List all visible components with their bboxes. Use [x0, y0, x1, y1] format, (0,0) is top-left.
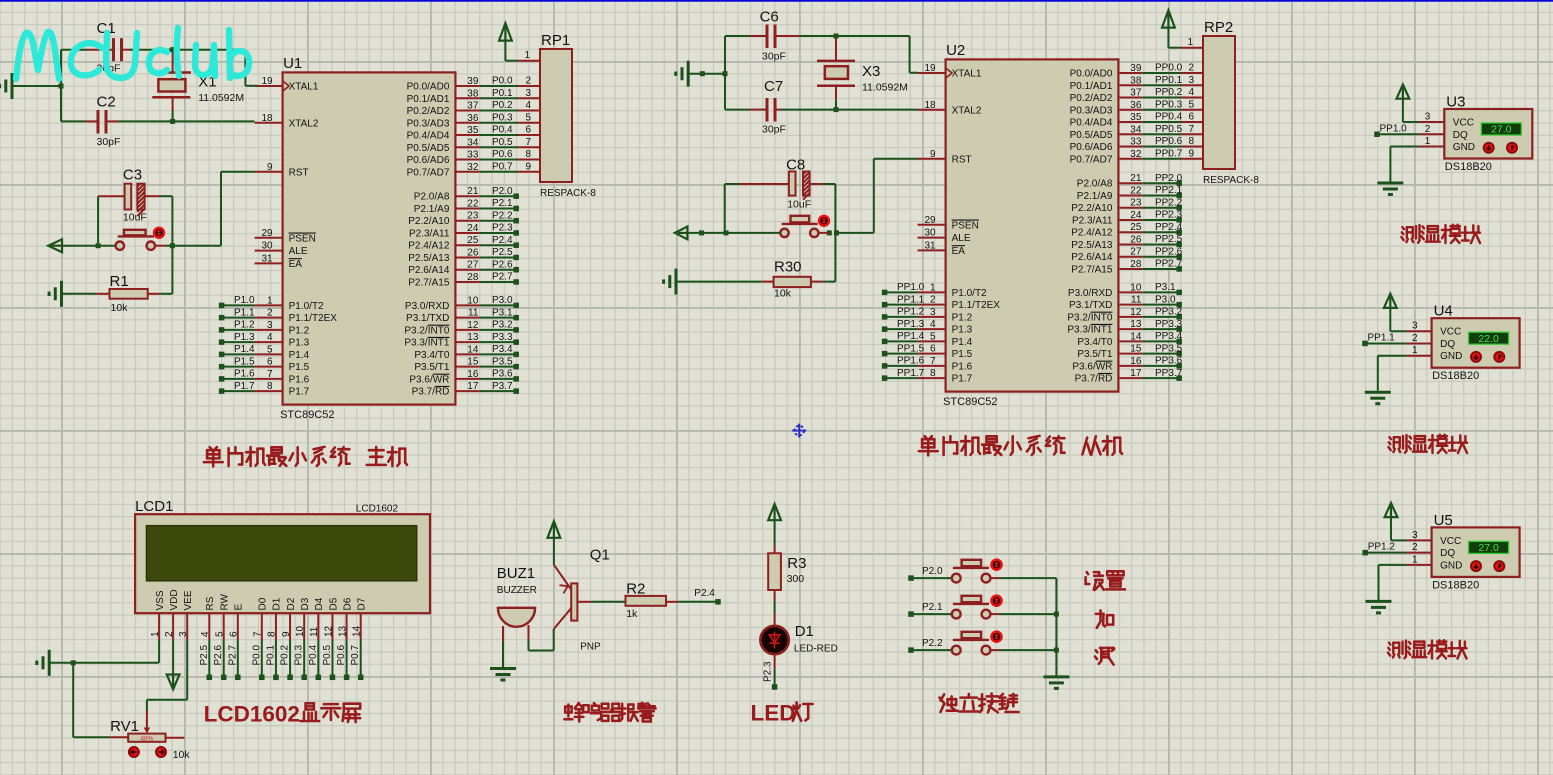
- ground: [37, 650, 159, 676]
- net label P1.3: [219, 332, 255, 345]
- button decrease: [129, 747, 139, 757]
- svg-text:XTAL2: XTAL2: [289, 118, 319, 129]
- svg-text:BUZ1: BUZ1: [497, 565, 535, 582]
- svg-text:3: 3: [1412, 530, 1418, 541]
- svg-text:P2.4: P2.4: [694, 588, 715, 599]
- svg-text:C6: C6: [760, 9, 779, 26]
- svg-text:1: 1: [1187, 37, 1193, 48]
- svg-text:PP1.7: PP1.7: [897, 368, 925, 379]
- net label P0.1: [265, 640, 278, 681]
- capacitor C7: [750, 78, 786, 136]
- svg-text:P3.0: P3.0: [1155, 294, 1176, 305]
- wire: [819, 159, 918, 233]
- svg-text:10k: 10k: [173, 749, 191, 761]
- svg-text:11.0592M: 11.0592M: [862, 82, 908, 94]
- svg-text:30pF: 30pF: [762, 51, 786, 63]
- wire: [160, 196, 175, 248]
- net label PP1.3: [882, 319, 925, 332]
- svg-text:7: 7: [253, 631, 264, 637]
- net label PP2.4: [1143, 222, 1183, 235]
- wire PP0.0: [1143, 63, 1203, 74]
- svg-text:27: 27: [1130, 247, 1142, 258]
- power VCC for U3: [1397, 85, 1420, 123]
- svg-text:27: 27: [467, 260, 479, 271]
- svg-text:17: 17: [467, 381, 479, 392]
- net label P3.2: [480, 320, 519, 333]
- svg-text:3: 3: [267, 320, 273, 331]
- svg-text:PP0.0: PP0.0: [1155, 63, 1183, 74]
- svg-text:C2: C2: [97, 94, 116, 111]
- svg-text:P2.3: P2.3: [763, 661, 774, 682]
- caption 加: [1096, 610, 1114, 628]
- svg-text:P0.6/AD6: P0.6/AD6: [1070, 142, 1113, 153]
- svg-text:PSEN: PSEN: [289, 233, 316, 244]
- svg-text:EA: EA: [289, 259, 303, 270]
- svg-text:P1.1: P1.1: [234, 307, 255, 318]
- svg-text:U2: U2: [946, 42, 965, 59]
- net label P3.0: [1143, 294, 1182, 307]
- svg-text:P0.0: P0.0: [251, 644, 262, 665]
- net label PP3.7: [1143, 368, 1183, 381]
- svg-text:DS18B20: DS18B20: [1432, 579, 1479, 591]
- svg-text:39: 39: [467, 76, 479, 87]
- push button P2.0: [908, 560, 1056, 583]
- svg-text:10: 10: [1130, 282, 1142, 293]
- svg-text:GND: GND: [1453, 142, 1475, 153]
- net label P1.5: [219, 356, 255, 369]
- svg-text:10uF: 10uF: [787, 199, 811, 211]
- svg-text:14: 14: [352, 625, 363, 637]
- net label PP1.2: [882, 307, 925, 320]
- svg-text:31: 31: [924, 240, 936, 251]
- svg-text:P3.4/T0: P3.4/T0: [414, 350, 449, 361]
- ground: [1043, 677, 1069, 689]
- svg-text:P3.2/INT0: P3.2/INT0: [404, 325, 449, 336]
- svg-text:P1.3: P1.3: [234, 332, 255, 343]
- wire: [725, 34, 918, 73]
- svg-text:D1: D1: [272, 597, 283, 610]
- resistor R3 300: [768, 545, 806, 613]
- svg-text:PP2.7: PP2.7: [1155, 259, 1183, 270]
- svg-text:RESPACK-8: RESPACK-8: [540, 188, 596, 199]
- svg-text:P0.3/AD3: P0.3/AD3: [407, 118, 450, 129]
- net label PP1.0: [1374, 123, 1419, 137]
- svg-text:P3.3/INT1: P3.3/INT1: [1067, 325, 1112, 336]
- svg-text:34: 34: [467, 137, 479, 148]
- capacitor C1: [88, 20, 130, 75]
- svg-text:R1: R1: [110, 273, 129, 290]
- net label P2.3: [763, 661, 778, 690]
- wire: [155, 172, 255, 246]
- net label P3.6: [480, 369, 519, 382]
- svg-text:PP1.2: PP1.2: [1368, 542, 1396, 553]
- svg-text:32: 32: [1130, 149, 1142, 160]
- capacitor C2: [85, 94, 120, 149]
- svg-text:PP2.1: PP2.1: [1155, 185, 1183, 196]
- wire PP0.6: [1143, 136, 1203, 147]
- svg-text:11: 11: [309, 626, 320, 637]
- net label P3.3: [480, 332, 519, 345]
- svg-text:8: 8: [1188, 136, 1194, 147]
- svg-text:1k: 1k: [626, 608, 638, 620]
- svg-text:DS18B20: DS18B20: [1445, 161, 1492, 173]
- svg-text:P0.4/AD4: P0.4/AD4: [1070, 118, 1113, 129]
- svg-text:4: 4: [525, 100, 531, 111]
- svg-text:1: 1: [1412, 554, 1418, 565]
- svg-text:P1.5: P1.5: [952, 349, 973, 360]
- svg-text:38: 38: [1130, 75, 1142, 86]
- net label PP1.0: [882, 282, 925, 295]
- svg-text:18: 18: [261, 113, 273, 124]
- svg-text:3: 3: [525, 88, 531, 99]
- svg-text:P1.7: P1.7: [289, 387, 310, 398]
- wire P0.1: [480, 88, 540, 99]
- svg-text:DQ: DQ: [1440, 548, 1455, 559]
- wire: [158, 640, 160, 663]
- net label P2.3: [480, 223, 519, 236]
- push button P2.1: [908, 596, 1056, 619]
- caption 测温模块: [1388, 640, 1467, 658]
- svg-text:D1: D1: [795, 623, 814, 640]
- svg-text:5: 5: [930, 331, 936, 342]
- svg-text:3: 3: [1412, 321, 1418, 332]
- svg-text:15: 15: [1130, 344, 1142, 355]
- svg-text:PSEN: PSEN: [952, 220, 979, 231]
- svg-text:P2.2/A10: P2.2/A10: [1071, 203, 1113, 214]
- svg-text:P3.1/TXD: P3.1/TXD: [406, 313, 449, 324]
- svg-text:P2.7: P2.7: [492, 272, 513, 283]
- power arrow: [675, 227, 780, 240]
- svg-text:D0: D0: [258, 597, 269, 610]
- svg-text:P2.6/A14: P2.6/A14: [408, 265, 450, 276]
- svg-text:19: 19: [261, 76, 273, 87]
- svg-text:P3.7/RD: P3.7/RD: [1075, 374, 1113, 385]
- svg-text:PP1.2: PP1.2: [897, 307, 925, 318]
- lcd module LCD1 (LCD1602): [135, 498, 430, 640]
- svg-text:4: 4: [200, 631, 211, 637]
- svg-text:E: E: [234, 604, 245, 611]
- net label P1.0: [219, 295, 255, 308]
- svg-text:36: 36: [467, 113, 479, 124]
- svg-text:P2.3/A11: P2.3/A11: [1072, 215, 1113, 226]
- svg-text:6: 6: [930, 344, 936, 355]
- svg-text:P2.1: P2.1: [922, 602, 943, 613]
- svg-text:9: 9: [1188, 148, 1194, 159]
- svg-text:PP1.4: PP1.4: [897, 331, 925, 342]
- svg-text:10uF: 10uF: [123, 212, 147, 224]
- svg-text:PP2.4: PP2.4: [1155, 222, 1183, 233]
- net label P0.0: [251, 640, 264, 681]
- svg-text:22: 22: [1130, 185, 1142, 196]
- origin marker: [792, 424, 806, 438]
- net label PP1.6: [882, 356, 925, 369]
- resistor R2 1k: [592, 581, 679, 620]
- svg-text:P0.5: P0.5: [322, 644, 333, 665]
- resistor R30 10k: [761, 259, 835, 300]
- power VCC for RP1: [499, 23, 540, 61]
- svg-text:D6: D6: [342, 597, 353, 610]
- net label P3.7: [480, 381, 519, 394]
- net label PP1.1: [882, 294, 925, 307]
- svg-text:1: 1: [930, 282, 936, 293]
- svg-text:3: 3: [178, 631, 189, 637]
- wire PP0.5: [1143, 124, 1203, 135]
- net label P1.2: [219, 320, 255, 333]
- svg-text:U1: U1: [283, 55, 302, 72]
- net label P0.3: [294, 640, 307, 681]
- svg-text:VCC: VCC: [1440, 327, 1461, 338]
- svg-text:P0.3: P0.3: [492, 112, 513, 123]
- svg-text:P0.5/AD5: P0.5/AD5: [1070, 130, 1113, 141]
- svg-text:PP2.6: PP2.6: [1155, 246, 1183, 257]
- svg-text:P2.0/A8: P2.0/A8: [1077, 179, 1113, 190]
- svg-text:P0.7: P0.7: [492, 161, 513, 172]
- svg-text:PP0.2: PP0.2: [1155, 87, 1183, 98]
- svg-text:RST: RST: [289, 167, 309, 178]
- svg-text:RV1: RV1: [110, 718, 139, 735]
- net label P3.1: [1143, 282, 1182, 295]
- svg-text:P1.1/T2EX: P1.1/T2EX: [289, 313, 338, 324]
- svg-text:29: 29: [261, 228, 273, 239]
- svg-text:C7: C7: [764, 78, 783, 95]
- svg-text:P1.6: P1.6: [289, 374, 310, 385]
- resistor R1 10k: [96, 246, 172, 314]
- net label PP1.5: [882, 343, 925, 356]
- wire PP0.7: [1143, 148, 1203, 159]
- svg-text:25: 25: [1130, 222, 1142, 233]
- net label PP3.3: [1143, 319, 1183, 332]
- svg-text:C3: C3: [123, 167, 142, 184]
- push button P2.2: [908, 632, 1056, 655]
- svg-text:U5: U5: [1434, 512, 1453, 529]
- caption 测温模块: [1388, 435, 1467, 453]
- svg-text:37: 37: [1130, 88, 1142, 99]
- svg-text:P1.0/T2: P1.0/T2: [952, 288, 987, 299]
- svg-text:P2.4/A12: P2.4/A12: [408, 241, 450, 252]
- svg-text:PP1.0: PP1.0: [897, 282, 925, 293]
- net label PP3.2: [1143, 307, 1183, 320]
- svg-text:P0.6/AD6: P0.6/AD6: [407, 155, 450, 166]
- net label P2.5: [480, 247, 519, 260]
- net label PP3.6: [1143, 356, 1183, 369]
- svg-text:VCC: VCC: [1453, 118, 1474, 129]
- svg-text:P0.4/AD4: P0.4/AD4: [407, 131, 450, 142]
- net label P3.5: [480, 356, 519, 369]
- svg-text:X3: X3: [862, 63, 880, 80]
- svg-text:6: 6: [1188, 112, 1194, 123]
- svg-text:P1.1/T2EX: P1.1/T2EX: [952, 300, 1001, 311]
- svg-text:P0.0/AD0: P0.0/AD0: [1070, 69, 1113, 80]
- svg-text:22: 22: [467, 198, 479, 209]
- svg-text:14: 14: [467, 344, 479, 355]
- temperature module U4 (DS18B20): [1407, 303, 1520, 775]
- svg-text:PP3.3: PP3.3: [1155, 319, 1183, 330]
- svg-text:21: 21: [1130, 173, 1142, 184]
- svg-text:39: 39: [1130, 63, 1142, 74]
- svg-text:5: 5: [215, 631, 226, 637]
- svg-text:PP2.2: PP2.2: [1155, 197, 1183, 208]
- svg-text:38: 38: [467, 88, 479, 99]
- net label PP3.5: [1143, 343, 1183, 356]
- svg-text:P0.1/AD1: P0.1/AD1: [407, 94, 450, 105]
- svg-text:10: 10: [467, 295, 479, 306]
- svg-text:P2.4: P2.4: [492, 235, 513, 246]
- svg-text:2: 2: [164, 631, 175, 637]
- svg-text:16: 16: [1130, 356, 1142, 367]
- svg-text:P2.6: P2.6: [213, 644, 224, 665]
- svg-text:P3.0/RXD: P3.0/RXD: [1068, 288, 1112, 299]
- net label P2.7: [227, 640, 240, 681]
- svg-text:R2: R2: [626, 581, 645, 598]
- svg-text:VDD: VDD: [169, 589, 180, 610]
- svg-text:28: 28: [467, 272, 479, 283]
- svg-text:PP1.3: PP1.3: [897, 319, 925, 330]
- svg-text:P0.5: P0.5: [492, 137, 513, 148]
- net label PP2.5: [1143, 234, 1183, 247]
- svg-text:13: 13: [467, 332, 479, 343]
- svg-text:PNP: PNP: [580, 642, 601, 653]
- ground: [664, 269, 762, 295]
- svg-text:P3.6/WR: P3.6/WR: [409, 374, 449, 385]
- svg-text:8: 8: [930, 368, 936, 379]
- svg-text:P2.1/A9: P2.1/A9: [1077, 191, 1113, 202]
- net label P3.4: [480, 344, 519, 357]
- svg-text:P0.3: P0.3: [294, 644, 305, 665]
- svg-text:P0.1/AD1: P0.1/AD1: [1070, 81, 1113, 92]
- net label P2.7: [480, 272, 519, 285]
- svg-text:PP1.1: PP1.1: [1368, 332, 1396, 343]
- svg-text:P1.7: P1.7: [234, 381, 255, 392]
- svg-text:P3.1/TXD: P3.1/TXD: [1069, 300, 1112, 311]
- svg-text:P2.0: P2.0: [492, 186, 513, 197]
- wire PP0.1: [1143, 75, 1203, 86]
- svg-text:4: 4: [930, 319, 936, 330]
- wire PP0.4: [1143, 112, 1203, 123]
- svg-text:24: 24: [1130, 210, 1142, 221]
- svg-text:VEE: VEE: [183, 590, 194, 610]
- net label P3.1: [480, 307, 519, 320]
- wire: [725, 107, 918, 112]
- net label PP1.1: [1362, 332, 1406, 346]
- svg-text:2: 2: [930, 295, 936, 306]
- svg-text:ALE: ALE: [289, 246, 308, 257]
- net label P2.5: [199, 640, 212, 681]
- watermark MCUclub: [16, 28, 249, 79]
- svg-text:D7: D7: [357, 597, 368, 610]
- svg-text:U4: U4: [1434, 303, 1453, 320]
- svg-text:P0.1: P0.1: [265, 644, 276, 665]
- ic U1 (STC89C52): [255, 55, 480, 421]
- svg-text:1: 1: [524, 50, 530, 61]
- svg-text:P3.7: P3.7: [492, 381, 513, 392]
- svg-text:P3.3: P3.3: [492, 332, 513, 343]
- svg-text:P1.2: P1.2: [952, 312, 973, 323]
- wire: [1054, 578, 1059, 675]
- svg-text:9: 9: [930, 149, 936, 160]
- svg-text:37: 37: [467, 101, 479, 112]
- svg-text:5: 5: [525, 112, 531, 123]
- svg-text:14: 14: [1130, 331, 1142, 342]
- svg-text:30pF: 30pF: [762, 124, 786, 136]
- svg-text:VSS: VSS: [155, 590, 166, 610]
- ground: [1365, 356, 1407, 404]
- svg-text:PP0.4: PP0.4: [1155, 112, 1183, 123]
- svg-text:21: 21: [467, 186, 479, 197]
- svg-text:26: 26: [1130, 234, 1142, 245]
- net label P2.0: [480, 186, 519, 199]
- svg-text:P3.5/T1: P3.5/T1: [1077, 349, 1112, 360]
- svg-text:5: 5: [1188, 99, 1194, 110]
- svg-text:P3.0/RXD: P3.0/RXD: [405, 301, 449, 312]
- wire PP0.3: [1143, 99, 1203, 110]
- svg-text:P3.7/RD: P3.7/RD: [412, 387, 450, 398]
- wire: [61, 119, 255, 124]
- svg-text:P3.2: P3.2: [492, 320, 513, 331]
- svg-text:P0.3/AD3: P0.3/AD3: [1070, 105, 1113, 116]
- svg-text:P3.4/T0: P3.4/T0: [1077, 337, 1112, 348]
- wire VEE to RV1: [147, 640, 187, 711]
- svg-text:6: 6: [229, 631, 240, 637]
- crystal X3 11.0592M: [817, 39, 908, 110]
- svg-text:24: 24: [467, 223, 479, 234]
- svg-text:P3.5/T1: P3.5/T1: [414, 362, 449, 373]
- svg-text:48%: 48%: [140, 736, 153, 743]
- svg-text:25: 25: [467, 235, 479, 246]
- led D1 (LED-RED): [760, 613, 837, 668]
- svg-text:32: 32: [467, 162, 479, 173]
- svg-text:2: 2: [267, 308, 273, 319]
- transistor Q1 (PNP): [554, 547, 610, 653]
- svg-text:VCC: VCC: [1440, 536, 1461, 547]
- svg-text:9: 9: [281, 631, 292, 637]
- svg-text:PP1.1: PP1.1: [897, 294, 925, 305]
- wire: [725, 184, 740, 233]
- wire P0.5: [480, 137, 540, 148]
- svg-text:P0.1: P0.1: [492, 88, 513, 99]
- svg-text:6: 6: [525, 125, 531, 136]
- potentiometer RV1 10k: [73, 664, 190, 762]
- svg-text:P2.5/A13: P2.5/A13: [1071, 240, 1113, 251]
- resistor pack RP2 (RESPACK-8): [1203, 19, 1259, 186]
- svg-text:1: 1: [1425, 136, 1431, 147]
- svg-text:13: 13: [1130, 319, 1142, 330]
- svg-text:LED-RED: LED-RED: [794, 644, 838, 655]
- svg-text:PP3.4: PP3.4: [1155, 331, 1183, 342]
- svg-text:PP0.1: PP0.1: [1155, 75, 1183, 86]
- svg-text:33: 33: [467, 150, 479, 161]
- svg-text:P0.2/AD2: P0.2/AD2: [1070, 93, 1113, 104]
- svg-text:RP2: RP2: [1204, 19, 1233, 36]
- net label PP1.4: [882, 331, 925, 344]
- svg-text:35: 35: [467, 125, 479, 136]
- svg-text:23: 23: [467, 211, 479, 222]
- caption 设置: [1086, 571, 1125, 590]
- svg-text:P2.0: P2.0: [922, 566, 943, 577]
- svg-text:U3: U3: [1446, 94, 1465, 111]
- svg-text:STC89C52: STC89C52: [280, 409, 334, 421]
- svg-text:PP0.5: PP0.5: [1155, 124, 1183, 135]
- svg-text:PP3.5: PP3.5: [1155, 343, 1183, 354]
- svg-text:P0.6: P0.6: [492, 149, 513, 160]
- svg-text:XTAL1: XTAL1: [952, 69, 982, 80]
- svg-text:P2.1/A9: P2.1/A9: [414, 204, 450, 215]
- svg-text:30: 30: [261, 241, 273, 252]
- ground: [49, 281, 96, 307]
- svg-text:P1.6: P1.6: [234, 369, 255, 380]
- svg-text:P0.6: P0.6: [336, 644, 347, 665]
- reset button: [116, 228, 164, 250]
- svg-text:P1.0: P1.0: [234, 295, 255, 306]
